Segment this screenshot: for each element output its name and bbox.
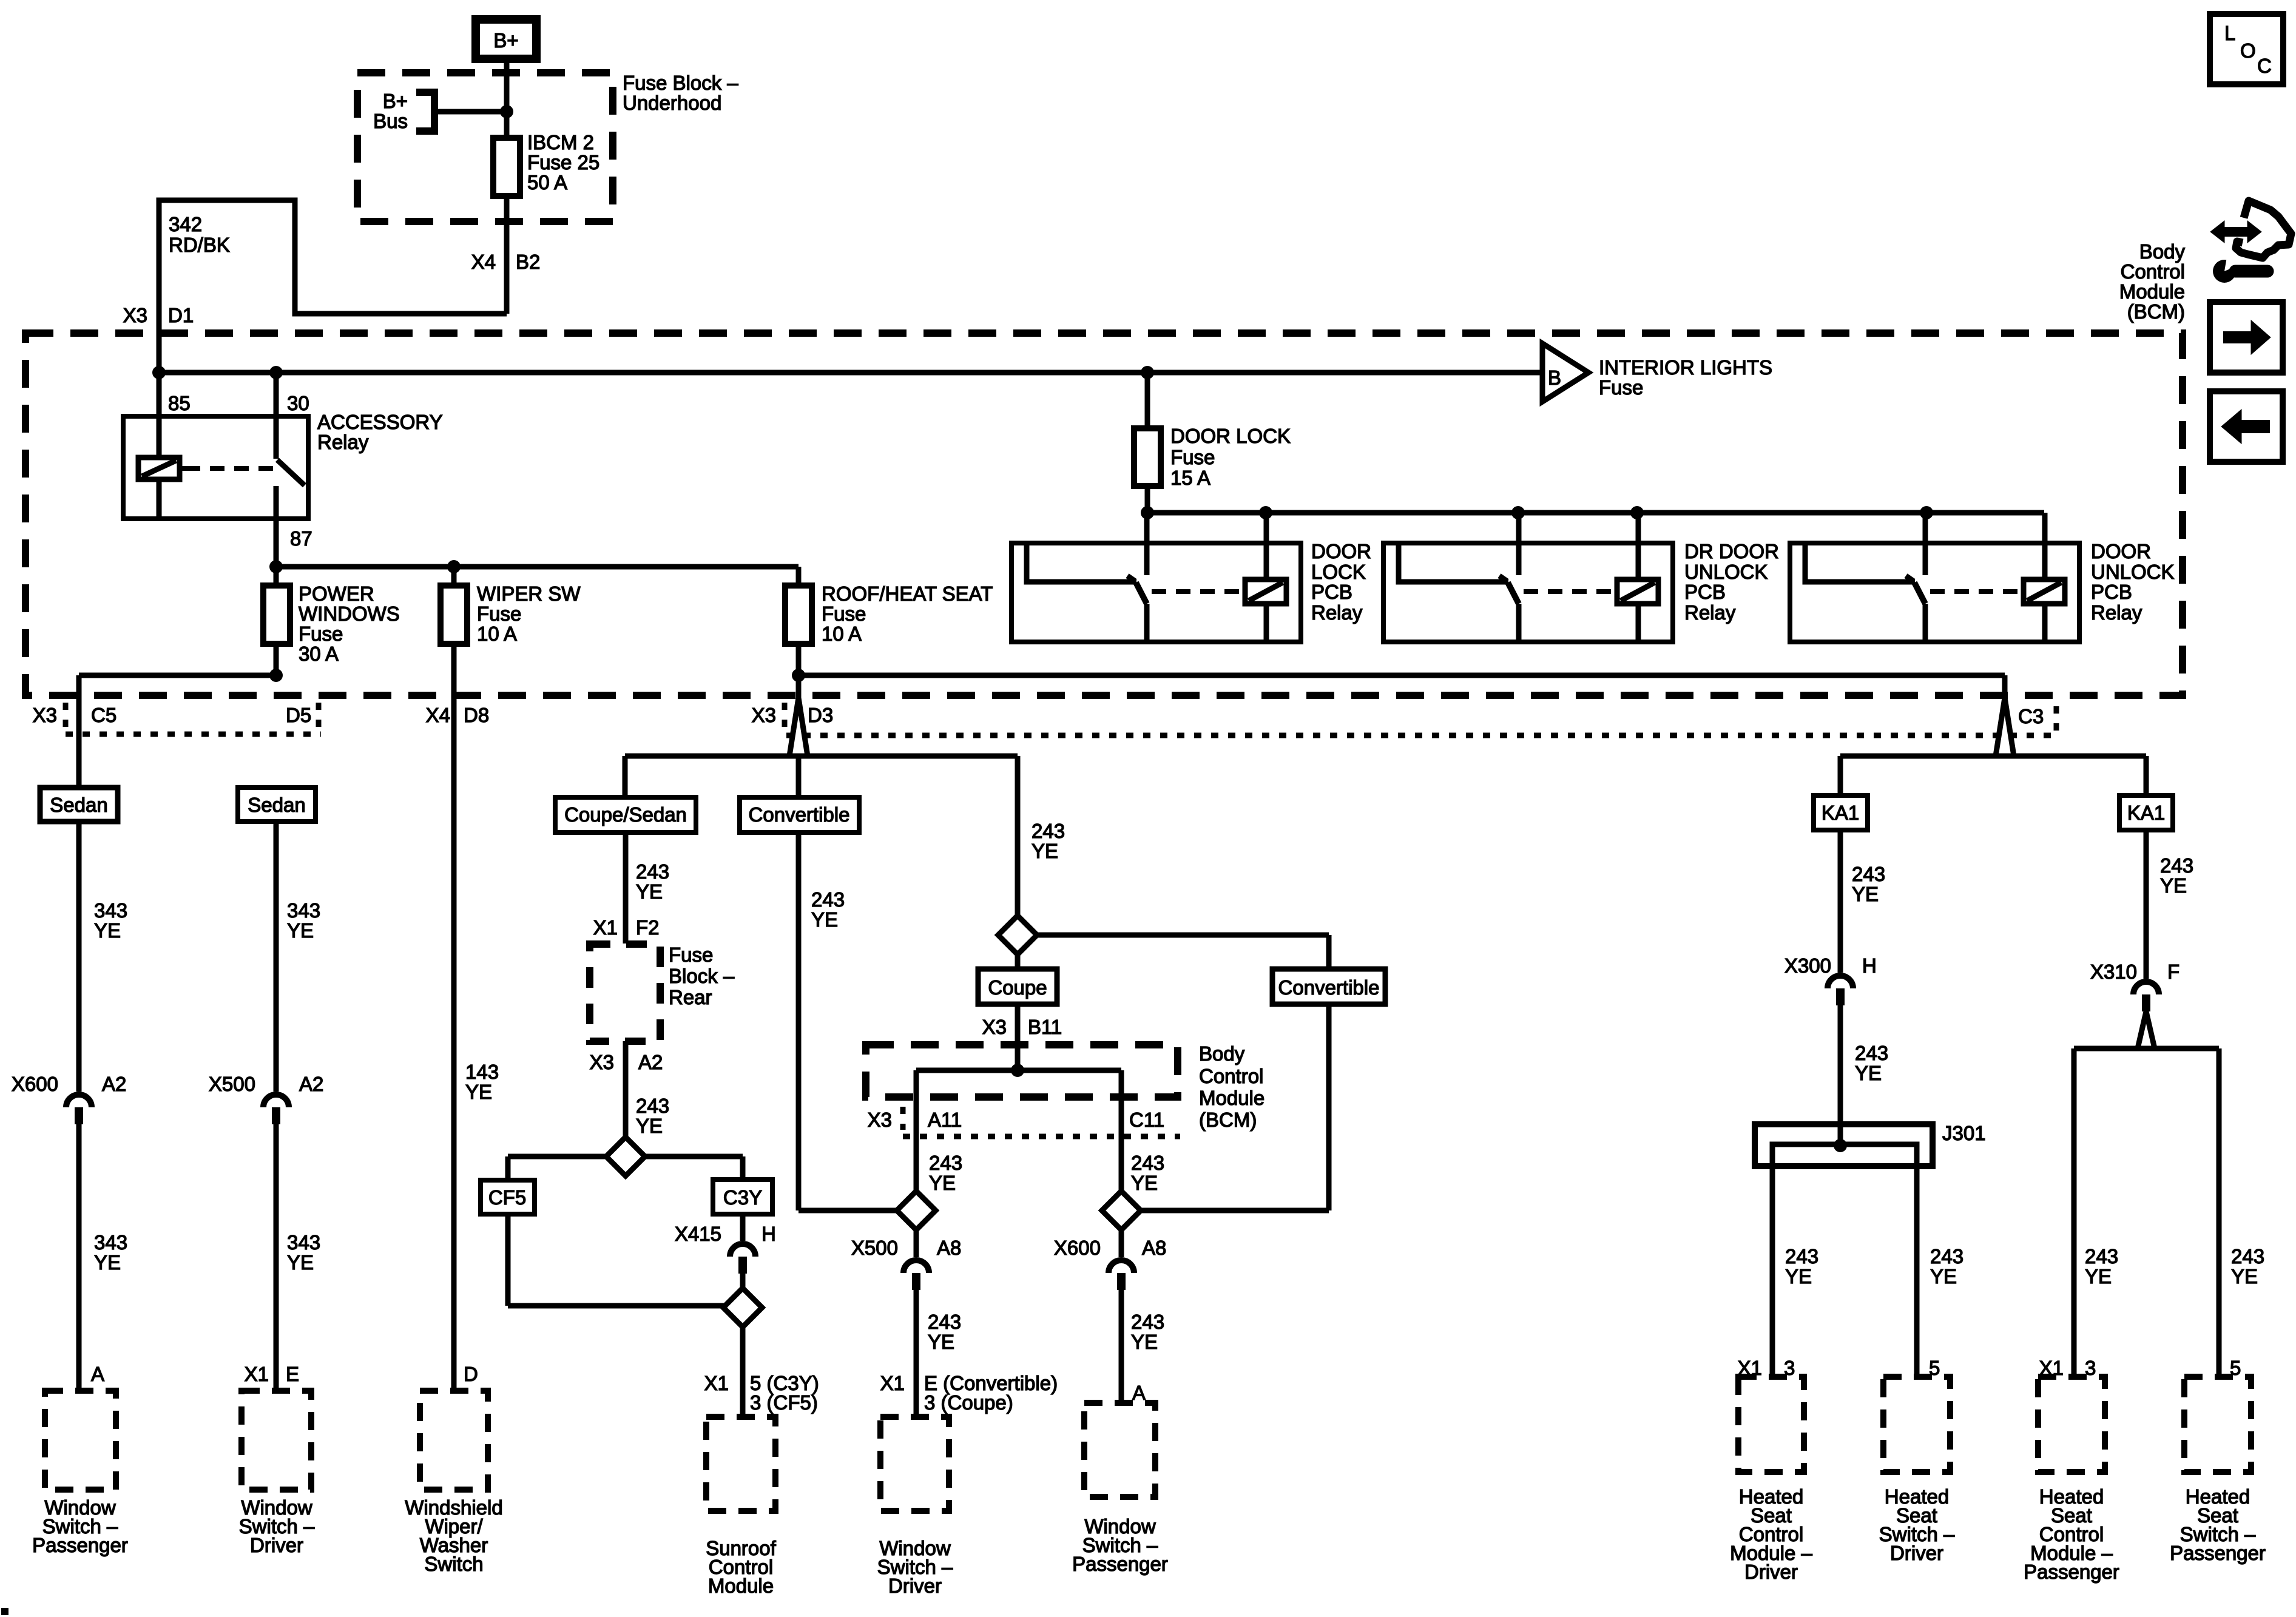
fuse DOOR LOCK 15A (1145, 373, 1150, 428)
svg-text:KA1: KA1 (2127, 802, 2165, 824)
wire convertible to driver splice (796, 832, 802, 1210)
svg-text:J301: J301 (1942, 1122, 1986, 1144)
junction door lock bus (1630, 506, 1644, 519)
B+ bus bar (416, 92, 434, 131)
icon arrow back box (2210, 391, 2283, 462)
svg-text:F2: F2 (636, 916, 660, 939)
wire diamond to X600 (1119, 1230, 1124, 1257)
svg-text:YE: YE (2231, 1265, 2258, 1288)
wire relay pin 85 (157, 373, 162, 416)
svg-text:D5: D5 (286, 704, 311, 726)
relay DR DOOR UNLOCK PCB outline (1383, 543, 1673, 642)
svg-text:B+: B+ (383, 90, 408, 112)
relay switch blade (1914, 582, 1925, 604)
wire convertible2 down to passenger splice (1326, 1004, 1332, 1210)
svg-text:Fuse Block –: Fuse Block – (623, 72, 738, 94)
wire wiper fuse to X4 D8 and windshield wiper switch (451, 644, 457, 1391)
relay internal output line (1027, 543, 1136, 582)
svg-text:ACCESSORY: ACCESSORY (317, 411, 443, 433)
svg-text:O: O (2240, 39, 2256, 62)
svg-text:243: 243 (1785, 1245, 1818, 1268)
wire door lock output bus (1147, 510, 2044, 516)
svg-text:X1: X1 (704, 1372, 729, 1394)
svg-text:Passenger: Passenger (2024, 1561, 2119, 1583)
svg-text:Block –: Block – (669, 965, 735, 987)
splice diamond passenger window (1102, 1191, 1141, 1230)
svg-text:Fuse: Fuse (299, 623, 343, 645)
svg-text:Sedan: Sedan (248, 794, 305, 816)
power feed node B+ (476, 19, 536, 59)
junction at power windows output (269, 669, 283, 682)
wire to Coupe/Sedan option (623, 756, 628, 797)
svg-text:KA1: KA1 (1822, 802, 1859, 824)
window switch - passenger 2 (dashed box) (1084, 1403, 1155, 1497)
splice diamond (606, 1137, 645, 1176)
wire 343 YE passenger (76, 822, 82, 1092)
wire 243 YE to X300 (1838, 830, 1843, 973)
wire splice split at C3 (1996, 698, 2014, 756)
svg-text:Sedan: Sedan (50, 794, 107, 816)
svg-text:UNLOCK: UNLOCK (2091, 561, 2175, 583)
svg-text:Fuse: Fuse (669, 944, 713, 966)
wire split below X310 (2138, 1011, 2155, 1048)
junction bus1 at relay contact (269, 366, 283, 379)
svg-text:DOOR LOCK: DOOR LOCK (1170, 425, 1291, 447)
svg-text:DR DOOR: DR DOOR (1684, 540, 1779, 562)
svg-text:D1: D1 (168, 304, 194, 326)
svg-text:243: 243 (636, 860, 669, 883)
svg-text:243: 243 (1852, 863, 1885, 885)
icon arrow next box (2210, 302, 2283, 373)
wire to splice diamond (740, 1274, 746, 1289)
svg-text:Module: Module (1199, 1087, 1264, 1109)
svg-text:WIPER SW: WIPER SW (477, 582, 581, 605)
relay switch feed wire (1516, 513, 1522, 575)
relay coil link dashed (1152, 589, 1244, 594)
svg-text:Relay: Relay (317, 431, 369, 453)
svg-text:Body: Body (2139, 240, 2186, 263)
svg-text:WINDOWS: WINDOWS (299, 603, 400, 625)
svg-text:30 A: 30 A (299, 643, 339, 665)
wire to heated seat control module passenger (2071, 1048, 2077, 1377)
wire 243 YE coupe/sedan (623, 832, 629, 944)
option box KA1 right (2119, 795, 2173, 830)
relay coil link dashed (1930, 589, 2022, 594)
wire to window switch driver (914, 1290, 919, 1417)
option box Convertible 2 (1272, 969, 1385, 1004)
wire A11 to splice (914, 1070, 919, 1191)
wire to sunroof control module (740, 1326, 746, 1417)
relay coil (1617, 579, 1658, 604)
fuse IBCM 2 Fuse 25 50A (493, 138, 520, 196)
relay coil link dashed (1524, 589, 1616, 594)
wire C3Y to connector X415 (740, 1214, 746, 1241)
svg-text:Passenger: Passenger (1072, 1553, 1168, 1575)
svg-text:DOOR: DOOR (2091, 540, 2151, 562)
svg-text:UNLOCK: UNLOCK (1684, 561, 1768, 583)
svg-text:Bus: Bus (373, 110, 408, 132)
wire to C3Y branch (644, 1154, 743, 1160)
wire to Convertible option (right) (1037, 933, 1329, 938)
relay internal output line (1805, 543, 1915, 582)
wire 342 RD/BK to BCM connector X3 pin D1 (159, 200, 507, 373)
svg-text:X4: X4 (471, 251, 496, 273)
svg-text:Fuse: Fuse (822, 603, 866, 625)
option box Sedan (driver) (238, 788, 316, 822)
relay switch blade (1136, 582, 1147, 604)
svg-text:Control: Control (1199, 1065, 1263, 1087)
wire to CF5 branch (508, 1154, 607, 1160)
junction door lock bus (1511, 506, 1525, 519)
wire power windows output branch left (79, 673, 276, 678)
svg-text:YE: YE (287, 1251, 314, 1274)
relay coil (138, 457, 180, 479)
heated seat switch - driver (dashed box) (1883, 1377, 1950, 1472)
svg-text:Coupe: Coupe (988, 976, 1047, 999)
sunroof control module (dashed box) (706, 1417, 775, 1511)
junction 87 bus at wiper fuse (447, 560, 461, 573)
option box CF5 (481, 1180, 535, 1214)
relay coil wire (157, 416, 162, 457)
svg-text:85: 85 (168, 392, 191, 414)
junction bus1 at coil (152, 366, 166, 379)
svg-text:X3: X3 (868, 1109, 892, 1131)
window switch - driver (dashed box) (241, 1391, 311, 1490)
svg-text:Body: Body (1199, 1042, 1245, 1065)
svg-text:B11: B11 (1028, 1016, 1062, 1038)
splice diamond coupe (998, 916, 1037, 954)
wire to Convertible option (796, 756, 802, 797)
svg-text:343: 343 (94, 899, 127, 922)
svg-text:CF5: CF5 (488, 1186, 526, 1209)
svg-text:10 A: 10 A (822, 623, 862, 645)
svg-text:X300: X300 (1784, 954, 1831, 977)
relay coil (2024, 579, 2065, 604)
wire 243 YE to X310 (2144, 830, 2149, 979)
relay DOOR UNLOCK PCB outline (1790, 543, 2079, 642)
svg-text:Passenger: Passenger (2170, 1542, 2266, 1564)
option box Coupe/Sedan (555, 797, 696, 832)
wire relay pin 87 (274, 519, 279, 567)
svg-text:YE: YE (929, 1172, 956, 1194)
svg-text:243: 243 (1855, 1042, 1888, 1064)
svg-text:LOCK: LOCK (1311, 561, 1366, 583)
wire to Coupe branch (1015, 756, 1021, 917)
svg-text:Relay: Relay (1684, 601, 1736, 624)
junction at roof fuse output (792, 669, 805, 682)
svg-text:243: 243 (928, 1311, 961, 1333)
svg-text:Passenger: Passenger (32, 1534, 128, 1556)
fuse WIPER SW 10A (441, 586, 467, 644)
svg-text:YE: YE (2085, 1265, 2112, 1288)
svg-text:243: 243 (2231, 1245, 2264, 1268)
svg-text:X3: X3 (982, 1016, 1007, 1038)
svg-text:243: 243 (929, 1152, 962, 1174)
svg-text:Rear: Rear (669, 986, 712, 1008)
svg-text:B: B (1548, 366, 1561, 389)
svg-text:PCB: PCB (2091, 581, 2132, 603)
svg-text:A2: A2 (102, 1073, 126, 1095)
svg-text:243: 243 (1131, 1311, 1164, 1333)
wire drop to C3 (2002, 675, 2008, 698)
svg-text:YE: YE (928, 1331, 954, 1353)
svg-text:Driver: Driver (888, 1575, 942, 1597)
svg-text:RD/BK: RD/BK (169, 234, 230, 256)
svg-text:H: H (761, 1223, 776, 1245)
wire 87 output bus (276, 564, 799, 570)
svg-text:Coupe/Sedan: Coupe/Sedan (564, 803, 687, 826)
svg-text:Fuse: Fuse (477, 603, 521, 625)
wire roof fuse output bus to heated seats (799, 673, 2005, 678)
wire fuse output to connector X4 pin B2 (504, 196, 510, 314)
svg-text:Convertible: Convertible (749, 803, 850, 826)
svg-text:A: A (91, 1363, 104, 1385)
svg-text:243: 243 (2085, 1245, 2118, 1268)
svg-text:243: 243 (811, 888, 845, 911)
relay internal output line (1399, 543, 1508, 582)
svg-text:343: 343 (287, 899, 320, 922)
svg-text:A8: A8 (937, 1237, 961, 1259)
svg-text:243: 243 (1032, 820, 1065, 842)
svg-text:X1: X1 (593, 916, 618, 939)
svg-text:YE: YE (1852, 883, 1879, 905)
svg-text:50 A: 50 A (527, 171, 567, 194)
svg-text:3 (CF5): 3 (CF5) (750, 1391, 818, 1414)
svg-text:(BCM): (BCM) (2127, 300, 2185, 323)
relay switch feed wire (1923, 513, 1928, 575)
svg-text:343: 343 (94, 1231, 127, 1254)
wire 343 YE driver (274, 822, 279, 1092)
svg-text:X600: X600 (12, 1073, 58, 1095)
svg-text:Fuse 25: Fuse 25 (527, 151, 599, 174)
svg-text:C: C (2257, 55, 2272, 77)
svg-text:C3Y: C3Y (723, 1186, 762, 1209)
svg-text:YE: YE (94, 1251, 121, 1274)
svg-text:Switch: Switch (424, 1553, 483, 1575)
wire splice split at D3 (789, 698, 808, 756)
svg-text:INTERIOR LIGHTS: INTERIOR LIGHTS (1599, 356, 1772, 379)
svg-text:D8: D8 (464, 704, 489, 726)
svg-text:Driver: Driver (1744, 1561, 1798, 1583)
wire to window switch passenger (1119, 1290, 1124, 1403)
splice diamond driver window (897, 1191, 936, 1230)
svg-text:15 A: 15 A (1170, 467, 1210, 489)
svg-text:243: 243 (1131, 1152, 1164, 1174)
svg-text:YE: YE (636, 1115, 663, 1137)
option box Coupe (978, 969, 1057, 1004)
svg-text:F: F (2167, 960, 2180, 983)
relay switch blade (1508, 582, 1519, 604)
relay ACCESSORY outline (123, 416, 308, 519)
junction bus1 at door lock fuse (1141, 366, 1154, 379)
fuse POWER WINDOWS 30A (263, 586, 290, 644)
svg-text:X1: X1 (880, 1372, 905, 1394)
svg-text:X500: X500 (209, 1073, 255, 1095)
relay DOOR LOCK PCB outline (1011, 543, 1301, 642)
wire B+ terminal down (504, 63, 510, 138)
svg-text:Driver: Driver (1890, 1542, 1943, 1564)
svg-text:B2: B2 (516, 251, 540, 273)
svg-text:X600: X600 (1054, 1237, 1101, 1259)
splice diamond sunroof (723, 1288, 762, 1327)
svg-text:Module: Module (2119, 280, 2185, 303)
relay switch contact and blade (274, 416, 279, 459)
svg-text:ROOF/HEAT SEAT: ROOF/HEAT SEAT (822, 582, 993, 605)
option box C3Y (713, 1180, 772, 1214)
svg-text:Module: Module (708, 1575, 774, 1597)
junction door lock bus (1920, 506, 1933, 519)
wire diamond to X500 (914, 1230, 919, 1257)
svg-text:A2: A2 (299, 1073, 323, 1095)
window switch - passenger (dashed box) (45, 1391, 116, 1490)
wire B+ bus to fuse node (434, 109, 507, 115)
wire to KA1 right (2144, 756, 2149, 795)
page mark bottom left (1, 1608, 8, 1615)
svg-text:A8: A8 (1142, 1237, 1166, 1259)
svg-text:C11: C11 (1129, 1109, 1164, 1131)
svg-text:Convertible: Convertible (1278, 976, 1380, 999)
option box Sedan (passenger) (40, 788, 118, 822)
svg-text:YE: YE (811, 908, 838, 931)
junction B11 (1011, 1064, 1024, 1077)
relay coil-switch link (dashed) (180, 466, 186, 471)
junction B+ bus (500, 105, 513, 118)
svg-text:Driver: Driver (250, 1534, 303, 1556)
window switch - driver 2 (dashed box) (880, 1417, 949, 1511)
wire coupe to BCM X3 B11 (1015, 1004, 1021, 1070)
svg-text:243: 243 (2160, 854, 2193, 877)
wire to heated seat switch passenger (2217, 1048, 2222, 1377)
svg-text:X3: X3 (123, 304, 147, 326)
svg-text:A2: A2 (638, 1051, 663, 1073)
splice pack J301 (1755, 1124, 1933, 1166)
svg-text:X1: X1 (245, 1363, 269, 1385)
option box Convertible (740, 797, 859, 832)
svg-text:YE: YE (1032, 840, 1058, 862)
heated seat control module - driver (dashed box) (1738, 1377, 1804, 1472)
svg-text:D3: D3 (808, 704, 833, 726)
svg-text:(BCM): (BCM) (1199, 1109, 1257, 1131)
svg-text:Relay: Relay (1311, 601, 1363, 624)
option box KA1 left (1814, 795, 1868, 830)
svg-text:IBCM 2: IBCM 2 (527, 131, 594, 154)
svg-text:87: 87 (290, 527, 312, 550)
svg-text:YE: YE (636, 880, 663, 903)
junction door lock bus (1141, 506, 1154, 519)
svg-text:D: D (464, 1363, 478, 1385)
relay switch feed wire (1144, 513, 1150, 575)
connector strip X3 D3..C3 (dotted) (786, 733, 2056, 738)
windshield wiper/washer switch (dashed box) (420, 1391, 488, 1490)
svg-text:YE: YE (287, 919, 314, 942)
svg-text:342: 342 (169, 213, 202, 235)
svg-text:X4: X4 (426, 704, 450, 726)
body control module BCM (dashed outline) (25, 333, 2183, 695)
wire 343 YE to window switch passenger (76, 1124, 82, 1391)
fuse ROOF/HEAT SEAT 10A (796, 567, 802, 586)
icon LOC legend box (2210, 14, 2283, 84)
svg-text:X3: X3 (33, 704, 57, 726)
svg-text:H: H (1862, 954, 1877, 977)
wire C11 to splice (1119, 1070, 1124, 1191)
svg-text:C3: C3 (2018, 705, 2044, 727)
wire CF5 to splice (505, 1214, 511, 1306)
connector strip X3 C5/D5 (dotted) (66, 732, 321, 737)
heated seat switch - passenger (dashed box) (2184, 1377, 2251, 1472)
svg-text:143: 143 (465, 1061, 499, 1083)
svg-text:343: 343 (287, 1231, 320, 1254)
svg-text:YE: YE (1131, 1172, 1158, 1194)
svg-text:PCB: PCB (1311, 581, 1352, 603)
svg-text:30: 30 (287, 392, 309, 414)
wire 343 YE to window switch driver (274, 1124, 279, 1391)
fuse block - underhood (dashed outline) (357, 73, 613, 221)
heated seat control module - passenger (dashed box) (2038, 1377, 2105, 1472)
svg-text:POWER: POWER (299, 582, 374, 605)
svg-text:Fuse: Fuse (1599, 376, 1643, 399)
svg-text:YE: YE (465, 1081, 492, 1103)
svg-text:243: 243 (1930, 1245, 1963, 1268)
svg-text:YE: YE (1855, 1062, 1882, 1084)
svg-text:YE: YE (1785, 1265, 1812, 1288)
wire branch to X3 C5 (76, 675, 82, 788)
junction door lock bus (1259, 506, 1272, 519)
svg-text:243: 243 (636, 1095, 669, 1117)
wire 243 YE below rear fuse block (623, 1041, 629, 1138)
svg-text:A: A (1132, 1382, 1146, 1404)
svg-text:YE: YE (1131, 1331, 1158, 1353)
svg-text:3 (Coupe): 3 (Coupe) (924, 1391, 1013, 1414)
relay coil (1245, 579, 1286, 604)
svg-text:YE: YE (1930, 1265, 1957, 1288)
svg-text:DOOR: DOOR (1311, 540, 1371, 562)
svg-text:L: L (2224, 22, 2235, 44)
icon connector service (arrow + outline + wrench) (2236, 201, 2291, 258)
wire BCM internal rail B11 to A11/C11 (916, 1068, 1121, 1073)
svg-text:Control: Control (2121, 260, 2185, 283)
svg-text:Underhood: Underhood (623, 92, 721, 114)
svg-text:X500: X500 (851, 1237, 898, 1259)
svg-text:B+: B+ (493, 29, 518, 52)
svg-text:X3: X3 (590, 1051, 614, 1073)
interior lights fuse feed (triangle off-page connector B) (1542, 343, 1589, 402)
wire to Coupe option box (1015, 954, 1021, 969)
svg-text:C5: C5 (91, 704, 116, 726)
svg-text:X310: X310 (2090, 960, 2137, 983)
svg-text:PCB: PCB (1684, 581, 1726, 603)
svg-text:X415: X415 (675, 1223, 721, 1245)
svg-text:Relay: Relay (2091, 601, 2142, 624)
body control module BCM 2 (dashed box) (866, 1045, 1178, 1097)
svg-text:YE: YE (94, 919, 121, 942)
icon wrench (2213, 260, 2236, 283)
wire to KA1 left (1838, 756, 1843, 795)
svg-text:Fuse: Fuse (1170, 446, 1215, 468)
svg-text:E: E (286, 1363, 299, 1385)
junction 87 bus at power windows fuse (269, 560, 283, 573)
wire to X3 D3 (796, 675, 802, 700)
fuse block - rear (dashed box) (590, 944, 660, 1041)
wire relay pin 30 (274, 373, 279, 416)
svg-text:10 A: 10 A (477, 623, 517, 645)
wire internal feed bus from D1 (159, 370, 1542, 376)
wire to splice J301 (1838, 1005, 1843, 1144)
svg-text:A11: A11 (928, 1109, 962, 1131)
svg-text:YE: YE (2160, 874, 2187, 897)
svg-text:X3: X3 (752, 704, 776, 726)
